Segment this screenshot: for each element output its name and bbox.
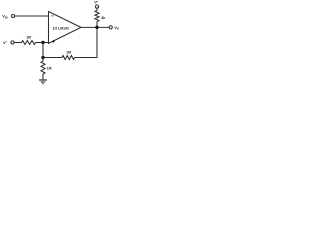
minus input mark (51, 15, 54, 17)
wire op-amp output (81, 26, 109, 28)
svg-text:1M: 1M (26, 36, 31, 40)
ground (39, 80, 47, 84)
wire node B to feedback resistor (43, 57, 62, 59)
resistor R2 1M (vertical) (41, 61, 45, 74)
op-amp U1 1/2 LM193 (49, 12, 82, 44)
wire R3 to output node (75, 27, 97, 57)
wire V+ to resistor R1 (14, 42, 21, 44)
wire R1 to plus input (36, 42, 49, 44)
terminal VO (109, 26, 112, 29)
svg-text:3k: 3k (101, 16, 105, 20)
junction output node (95, 26, 98, 29)
wire V+ to pull-up R4 (96, 8, 98, 10)
wire R4 to output node (96, 22, 98, 28)
junction node B (41, 56, 44, 59)
resistor R4 3k (vertical pull-up) (95, 11, 99, 22)
wire R2 to ground (42, 74, 44, 80)
terminal VIN (11, 14, 14, 17)
svg-text:1M: 1M (47, 67, 52, 71)
resistor R1 1M (horizontal) (22, 41, 36, 45)
svg-text:1M: 1M (66, 50, 71, 54)
wire node A down (42, 43, 44, 58)
terminal V+ top (95, 5, 98, 8)
resistor R3 1M (feedback, horizontal) (62, 56, 75, 60)
wire node B down to R2 (42, 58, 44, 62)
terminal V+ left (11, 41, 14, 44)
wire VIN to inverting input (15, 15, 49, 17)
svg-text:1/2 LM193: 1/2 LM193 (53, 27, 69, 31)
plus input mark (52, 40, 55, 43)
junction node A (41, 41, 44, 44)
